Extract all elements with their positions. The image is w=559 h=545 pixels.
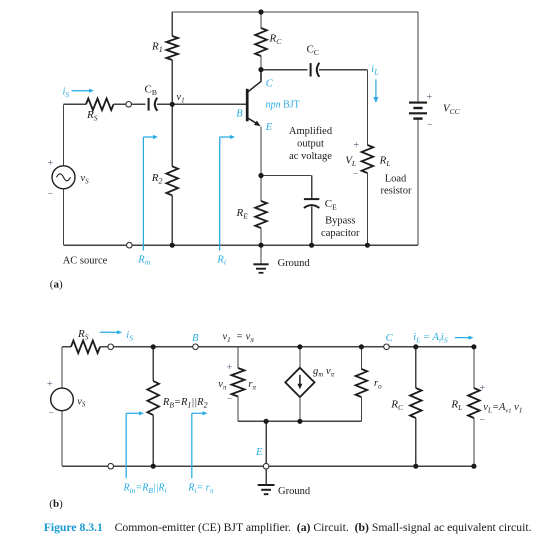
svg-text:−: −: [427, 119, 433, 130]
svg-text:E: E: [255, 447, 263, 458]
svg-text:resistor: resistor: [381, 186, 412, 197]
svg-text:Ground: Ground: [278, 258, 311, 269]
svg-text:iS: iS: [126, 330, 133, 342]
svg-text:iL = AiiS: iL = AiiS: [413, 332, 448, 344]
svg-text:R1: R1: [151, 41, 163, 54]
svg-text:RL: RL: [379, 155, 391, 168]
svg-text:Load: Load: [385, 173, 407, 184]
svg-text:Ri= rπ: Ri= rπ: [187, 483, 213, 495]
svg-text:Ground: Ground: [278, 486, 311, 497]
svg-text:VCC: VCC: [443, 103, 461, 116]
svg-text:R2: R2: [151, 172, 163, 185]
svg-text:vS: vS: [81, 173, 90, 185]
svg-text:CC: CC: [307, 44, 319, 57]
svg-text:v1: v1: [177, 92, 185, 104]
svg-text:vL=Av1 v1: vL=Av1 v1: [483, 402, 522, 414]
svg-text:v1 = vπ: v1 = vπ: [223, 332, 255, 344]
svg-text:Rin: Rin: [137, 254, 151, 266]
svg-text:rπ: rπ: [248, 379, 256, 391]
svg-text:ac voltage: ac voltage: [289, 151, 332, 162]
svg-text:RB=R1||R2: RB=R1||R2: [162, 397, 208, 409]
svg-text:(b): (b): [49, 498, 63, 510]
svg-text:+: +: [353, 140, 359, 151]
svg-text:iS: iS: [63, 87, 70, 99]
svg-text:C: C: [386, 333, 394, 344]
svg-text:+: +: [479, 383, 485, 394]
svg-text:vπ: vπ: [218, 379, 227, 391]
svg-text:gm vπ: gm vπ: [313, 366, 335, 378]
svg-text:CB: CB: [145, 84, 157, 97]
svg-text:RC: RC: [269, 33, 283, 46]
svg-text:+: +: [426, 92, 432, 103]
svg-text:ro: ro: [374, 378, 382, 390]
svg-text:vS: vS: [77, 396, 86, 408]
svg-text:Amplified: Amplified: [289, 126, 333, 137]
svg-text:+: +: [227, 362, 233, 373]
svg-text:−: −: [48, 407, 54, 418]
svg-text:B: B: [236, 109, 243, 120]
svg-text:npn BJT: npn BJT: [266, 100, 300, 111]
svg-text:RC: RC: [390, 399, 404, 412]
svg-text:−: −: [479, 415, 485, 426]
svg-text:VL: VL: [345, 155, 356, 168]
svg-text:+: +: [48, 158, 54, 169]
svg-text:RE: RE: [236, 207, 249, 220]
svg-text:C: C: [266, 79, 274, 90]
svg-text:capacitor: capacitor: [321, 228, 360, 239]
svg-text:RL: RL: [450, 399, 462, 412]
svg-text:Ri: Ri: [216, 254, 226, 266]
svg-text:iL: iL: [371, 64, 379, 76]
svg-text:Rin=RB||Ri: Rin=RB||Ri: [123, 483, 167, 495]
svg-text:AC source: AC source: [63, 256, 108, 267]
svg-text:Bypass: Bypass: [325, 216, 355, 227]
svg-text:+: +: [47, 379, 53, 390]
svg-text:−: −: [353, 169, 359, 180]
svg-text:RS: RS: [86, 109, 98, 122]
svg-text:E: E: [265, 122, 273, 133]
svg-text:−: −: [227, 394, 233, 405]
svg-text:RS: RS: [77, 328, 89, 341]
svg-text:(a): (a): [50, 279, 63, 291]
svg-text:Figure 8.3.1 Common-emitter: Figure 8.3.1 Common-emitter (CE) BJT amp…: [44, 521, 532, 534]
svg-text:−: −: [48, 188, 54, 199]
svg-text:CE: CE: [325, 198, 337, 211]
svg-text:output: output: [297, 138, 324, 149]
svg-text:B: B: [192, 333, 199, 344]
